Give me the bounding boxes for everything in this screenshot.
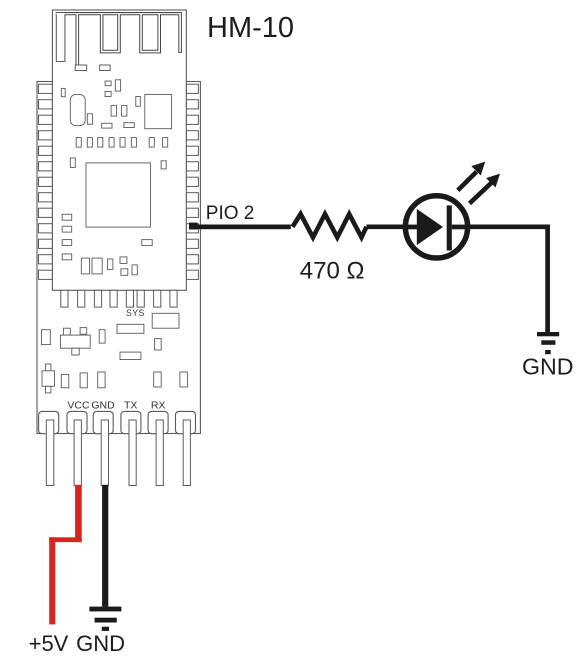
LED cathode wire inside bbox=[452, 225, 469, 230]
LED arrow 1 bbox=[458, 172, 477, 191]
HM-10 PCB module outline bbox=[52, 10, 186, 290]
antenna feed pad bbox=[75, 65, 87, 71]
svg-text:PIO 2: PIO 2 bbox=[206, 203, 255, 224]
svg-text:SYS: SYS bbox=[126, 308, 145, 318]
resistor R1 zigzag bbox=[293, 214, 367, 237]
svg-text:VCC: VCC bbox=[67, 400, 90, 412]
svg-text:GND: GND bbox=[91, 400, 115, 412]
pin connector bodies bbox=[39, 411, 196, 433]
antenna ground pad bbox=[100, 65, 110, 71]
small components on module bbox=[61, 80, 171, 275]
node PIO2 pad stub bbox=[189, 223, 198, 230]
wire PIO2 to resistor bbox=[193, 225, 291, 230]
svg-text:+5V: +5V bbox=[29, 631, 69, 656]
wire resistor to LED and to ground corner bbox=[367, 227, 548, 332]
LED D1 circle bbox=[405, 196, 467, 258]
ground symbol bottom bbox=[89, 607, 121, 612]
LED anode wire inside bbox=[405, 225, 419, 230]
svg-text:TX: TX bbox=[124, 400, 137, 412]
ground symbol right bbox=[537, 332, 559, 336]
components on carrier board bbox=[41, 313, 187, 393]
svg-text:470 Ω: 470 Ω bbox=[300, 258, 365, 285]
LED cathode bar bbox=[447, 205, 452, 250]
LED arrow 2 bbox=[470, 183, 492, 204]
wire VCC red bbox=[75, 485, 82, 542]
antenna meander (dark pass) bbox=[56, 12, 182, 67]
svg-text:HM-10: HM-10 bbox=[207, 12, 294, 44]
left castellation pads bbox=[39, 84, 53, 279]
right castellation pads bbox=[186, 84, 198, 279]
svg-text:RX: RX bbox=[151, 400, 166, 412]
svg-text:GND: GND bbox=[76, 631, 125, 656]
bottom castellation pads of module bbox=[61, 290, 177, 307]
wire GND black bbox=[102, 485, 108, 607]
pin labels VCC GND TX RX bbox=[67, 400, 165, 412]
carrier board outline bbox=[37, 82, 200, 434]
LED triangle bbox=[417, 209, 443, 245]
antenna meander (white inner pass) bbox=[56, 13, 181, 66]
svg-text:GND: GND bbox=[522, 354, 574, 380]
header pins bbox=[46, 420, 190, 486]
